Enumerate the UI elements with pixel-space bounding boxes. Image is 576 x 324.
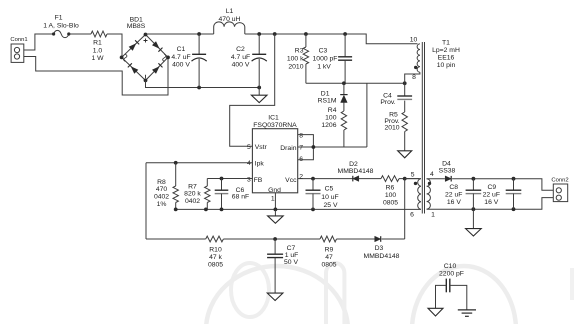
- node C1 bottom: [197, 86, 201, 90]
- svg-text:MMBD4148: MMBD4148: [364, 253, 400, 260]
- svg-text:D3: D3: [375, 245, 384, 252]
- svg-text:0402: 0402: [185, 198, 200, 205]
- svg-text:0402: 0402: [154, 194, 169, 201]
- ground IC: [268, 209, 284, 223]
- svg-text:1206: 1206: [321, 122, 336, 129]
- svg-text:R3: R3: [295, 47, 304, 54]
- resistor R3: [287, 34, 309, 83]
- svg-text:1%: 1%: [157, 201, 167, 208]
- svg-text:5: 5: [247, 144, 251, 151]
- svg-text:47 k: 47 k: [209, 254, 222, 261]
- svg-text:T1: T1: [442, 39, 450, 46]
- svg-text:EE16: EE16: [438, 55, 455, 62]
- svg-text:50 V: 50 V: [284, 259, 298, 266]
- node C8 bottom: [472, 207, 476, 211]
- svg-text:C1: C1: [177, 46, 186, 53]
- svg-text:D4: D4: [442, 160, 451, 167]
- resistor R4: [321, 107, 346, 147]
- capacitor C8: [445, 179, 481, 210]
- transformer T1 primary winding: [405, 37, 420, 84]
- svg-text:0805: 0805: [321, 261, 336, 268]
- ground C10 chassis: [428, 308, 443, 316]
- svg-text:C7: C7: [287, 245, 296, 252]
- svg-text:22 uF: 22 uF: [445, 191, 462, 198]
- wire R1 to bridge AC1: [107, 34, 122, 57]
- wire Conn1 pin1 to fuse: [24, 34, 54, 50]
- svg-text:C10: C10: [444, 263, 457, 270]
- svg-text:Lp=2 mH: Lp=2 mH: [432, 47, 460, 54]
- svg-text:8: 8: [299, 132, 303, 139]
- node C6 bottom: [220, 208, 224, 212]
- node C9 top: [512, 177, 516, 181]
- svg-text:470: 470: [156, 186, 168, 193]
- node Vstr tap: [273, 32, 277, 36]
- svg-text:2010: 2010: [288, 63, 303, 70]
- svg-text:470 uH: 470 uH: [219, 16, 241, 23]
- svg-text:0805: 0805: [208, 261, 223, 268]
- svg-text:Vstr: Vstr: [255, 144, 268, 151]
- svg-text:100 k: 100 k: [287, 56, 304, 63]
- node C2 top: [257, 32, 261, 36]
- capacitor C7: [267, 239, 298, 293]
- svg-text:Drain: Drain: [280, 145, 296, 152]
- svg-text:2: 2: [299, 173, 303, 180]
- svg-text:1: 1: [431, 211, 435, 218]
- capacitor C9: [483, 179, 522, 210]
- svg-text:SS38: SS38: [439, 168, 456, 175]
- node clamp C3: [342, 81, 346, 85]
- svg-text:10 pin: 10 pin: [437, 62, 456, 69]
- svg-text:47: 47: [325, 254, 333, 261]
- svg-text:8: 8: [412, 74, 416, 81]
- svg-text:C5: C5: [325, 185, 334, 192]
- svg-text:C9: C9: [487, 184, 496, 191]
- svg-text:1 W: 1 W: [91, 55, 104, 62]
- node R7 bottom: [174, 208, 208, 212]
- svg-text:1 A, Slo-Blo: 1 A, Slo-Blo: [43, 22, 79, 29]
- resistor R9: [320, 236, 337, 268]
- svg-text:25 V: 25 V: [324, 202, 338, 209]
- svg-text:R1: R1: [93, 40, 102, 47]
- node aux pin5: [403, 177, 407, 181]
- capacitor C6: [215, 179, 249, 210]
- resistor R10: [206, 236, 224, 268]
- transformer T1 label: [432, 39, 460, 69]
- wire feedback rail: [146, 238, 405, 240]
- capacitor C3: [313, 34, 353, 83]
- wire DC+ rail: [146, 34, 418, 44]
- diode D3: [364, 236, 400, 260]
- svg-text:Gnd: Gnd: [268, 187, 281, 194]
- svg-text:400 V: 400 V: [232, 61, 250, 68]
- resistor R5: [384, 111, 407, 151]
- svg-text:2200 pF: 2200 pF: [439, 270, 464, 277]
- wire secondary bottom rail: [427, 198, 554, 210]
- svg-text:10 uF: 10 uF: [321, 194, 338, 201]
- svg-text:4.7 uF: 4.7 uF: [231, 54, 250, 61]
- capacitor C2: [231, 34, 267, 88]
- wire FB line: [207, 178, 252, 180]
- svg-text:MB8S: MB8S: [127, 23, 146, 30]
- svg-text:D1: D1: [321, 90, 330, 97]
- ground R5: [398, 151, 412, 158]
- diode D1: [318, 83, 348, 111]
- svg-text:2010: 2010: [384, 124, 399, 131]
- svg-text:Vcc: Vcc: [285, 177, 297, 184]
- transformer T1 secondary winding: [427, 171, 445, 218]
- wire Vcc line: [298, 178, 353, 180]
- transformer T1 aux winding: [405, 172, 421, 219]
- node C2 bottom: [257, 86, 261, 90]
- capacitor C10: [436, 263, 467, 310]
- wire Vstr: [230, 34, 275, 146]
- svg-text:RS1M: RS1M: [318, 98, 337, 105]
- node C3 top: [343, 32, 347, 36]
- inductor L1: [214, 8, 245, 34]
- diode D4: [439, 160, 456, 181]
- capacitor C1: [171, 34, 206, 88]
- svg-text:0805: 0805: [383, 199, 398, 206]
- ground secondary: [466, 209, 482, 236]
- connector Conn1: [10, 37, 27, 62]
- node C5 top: [311, 177, 315, 181]
- capacitor C5: [306, 179, 339, 210]
- svg-text:68 nF: 68 nF: [232, 194, 249, 201]
- wire drain to clamp: [313, 146, 367, 148]
- svg-text:16 V: 16 V: [484, 199, 498, 206]
- svg-text:22 uF: 22 uF: [483, 191, 500, 198]
- node C8 top: [472, 177, 476, 181]
- wire D3 to aux: [404, 179, 406, 239]
- wire clamp node: [306, 83, 405, 147]
- svg-text:100: 100: [385, 192, 397, 199]
- svg-text:3: 3: [247, 177, 251, 184]
- svg-text:R7: R7: [188, 183, 197, 190]
- svg-text:R8: R8: [157, 179, 166, 186]
- svg-text:4: 4: [247, 160, 251, 167]
- svg-text:FB: FB: [254, 177, 263, 184]
- svg-text:100: 100: [325, 114, 337, 121]
- svg-text:R9: R9: [325, 247, 334, 254]
- wire fuse to R1: [69, 33, 91, 35]
- svg-text:Conn2: Conn2: [551, 177, 568, 183]
- svg-text:R10: R10: [209, 247, 222, 254]
- svg-text:820 k: 820 k: [184, 191, 201, 198]
- node IC gnd: [274, 208, 278, 212]
- wire Conn1 pin2 to bridge AC2: [24, 57, 168, 96]
- svg-text:400 V: 400 V: [172, 61, 190, 68]
- transformer T1 core: [422, 42, 424, 214]
- svg-text:1000 pF: 1000 pF: [313, 56, 338, 63]
- resistor R1: [91, 31, 107, 62]
- svg-text:7: 7: [299, 145, 303, 152]
- svg-text:F1: F1: [55, 15, 63, 22]
- svg-text:Prov.: Prov.: [380, 99, 395, 106]
- resistor R6: [381, 176, 419, 207]
- svg-text:C2: C2: [236, 46, 245, 53]
- svg-text:D2: D2: [349, 161, 358, 168]
- svg-text:C8: C8: [449, 184, 458, 191]
- fuse F1: [43, 15, 79, 38]
- diode D2: [338, 161, 381, 182]
- svg-text:10: 10: [410, 37, 418, 44]
- wire gnd rail: [176, 208, 421, 210]
- ground C10 earth: [458, 310, 476, 316]
- svg-text:1: 1: [271, 195, 275, 202]
- bridge rectifier BD1: [120, 17, 170, 83]
- svg-text:L1: L1: [226, 8, 234, 15]
- node C9 bottom: [512, 207, 516, 211]
- ground bridge: [251, 88, 267, 103]
- svg-text:1 kV: 1 kV: [317, 63, 331, 70]
- svg-text:16 V: 16 V: [447, 199, 461, 206]
- svg-text:4: 4: [430, 171, 434, 178]
- node primary pin8: [403, 81, 407, 85]
- connector Conn2: [551, 177, 568, 201]
- svg-text:FSQ0370RNA: FSQ0370RNA: [253, 122, 297, 129]
- wire feedback left leg: [145, 163, 147, 239]
- svg-text:IC1: IC1: [268, 115, 279, 122]
- svg-text:Ipk: Ipk: [255, 161, 265, 168]
- svg-text:MMBD4148: MMBD4148: [338, 168, 374, 175]
- svg-text:6: 6: [410, 211, 414, 218]
- resistor R8: [154, 163, 178, 210]
- ground C7: [267, 293, 283, 300]
- node R3 top: [304, 32, 308, 36]
- svg-text:C3: C3: [319, 47, 328, 54]
- svg-text:1.0: 1.0: [93, 47, 103, 54]
- node C5 bottom: [311, 208, 315, 212]
- wire secondary top rail: [452, 179, 553, 191]
- svg-text:R4: R4: [328, 107, 337, 114]
- node C6 top: [220, 177, 224, 181]
- svg-text:5: 5: [411, 172, 415, 179]
- op-amp IC1 FSQ0370RNA: [247, 115, 315, 210]
- resistor R7: [184, 179, 210, 210]
- wire bridge minus rail: [146, 80, 260, 87]
- wire Ipk line: [146, 162, 252, 164]
- svg-text:R6: R6: [386, 185, 395, 192]
- node C1 top: [197, 32, 201, 36]
- node R8 top: [174, 161, 178, 165]
- svg-text:4.7 uF: 4.7 uF: [171, 54, 190, 61]
- node C7 top: [273, 237, 277, 241]
- svg-text:Conn1: Conn1: [10, 37, 27, 43]
- capacitor C4: [380, 83, 412, 112]
